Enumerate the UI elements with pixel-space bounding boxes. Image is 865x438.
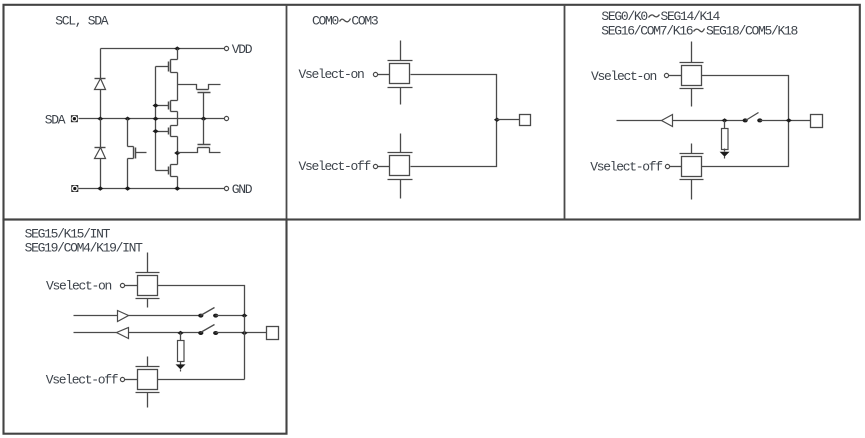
svg-text:GND: GND: [232, 182, 253, 197]
wire S3 to INT pad: [216, 332, 267, 334]
wire key-sense input line: [617, 120, 662, 122]
wire VDD top rail: [101, 48, 225, 50]
transistor SW2 (COM off-switch) gate lead bottom: [400, 180, 402, 199]
wire Vselect-off to switch SW2: [378, 166, 390, 168]
transistor SW2 (COM off-switch) body box: [390, 156, 410, 176]
transistor SW3 (SEG on-switch) gate lead top: [691, 42, 693, 63]
transistor SW2 (COM off-switch) gate lead top: [400, 134, 402, 153]
transistor Q6 right lead: [209, 85, 221, 90]
wire SDA rail to diode D2: [100, 119, 102, 148]
transistor T4 (NMOS) gate bar: [168, 167, 170, 175]
transistor T2 (PMOS) gate lead: [156, 105, 169, 107]
wire resistor bottom lead: [180, 362, 182, 365]
transistor Q6 channel bar: [197, 89, 209, 91]
transistor Q7 channel bar: [198, 147, 210, 149]
node SEG output junction: [786, 118, 792, 122]
terminal Vselect-on circle (COM): [373, 72, 377, 76]
transistor SW5 (INT on-switch) bottom gate bar: [136, 298, 160, 300]
node T4 source / bottom rail: [174, 186, 180, 190]
transistor T2 (PMOS) drain jog: [171, 100, 178, 102]
wire SW5 output: [158, 286, 245, 316]
transistor Q6 gate bar: [198, 92, 211, 94]
transistor SW4 (SEG off-switch) body box: [682, 157, 702, 177]
transistor SW5 (INT on-switch) gate lead bottom: [147, 299, 149, 308]
wire SW3 output: [702, 76, 789, 121]
pad COM output pin: [520, 115, 531, 126]
node feedback gates / SDA rail: [201, 117, 207, 121]
wire output column (INT): [244, 316, 246, 380]
diode D1 (pad to VDD): [95, 78, 106, 80]
transistor T3 (NMOS) gate bar: [168, 128, 170, 135]
transistor T1 (PMOS) gate bar: [168, 62, 170, 72]
wire T1 source to T2 drain: [177, 73, 179, 101]
transistor T4 (NMOS) channel bar: [170, 165, 172, 177]
node NMOS midpoint feedback tap: [174, 151, 180, 155]
node resistor tap (SEG): [722, 118, 728, 122]
transistor Q7 right lead: [210, 148, 221, 153]
wire diode D1 to SDA rail: [100, 90, 102, 119]
wire buffer to switch S1: [673, 120, 746, 122]
buffer U2 (INT output, pointing right): [118, 311, 129, 322]
transistor T3 (NMOS) gate lead: [156, 131, 169, 133]
wire buffer U2 to switch S2: [129, 315, 201, 317]
node line B / output column: [241, 331, 247, 335]
wire Vselect-off to switch SW6: [125, 379, 138, 381]
wire Q7 gate lead from SDA rail: [203, 119, 205, 145]
transistor SW3 (SEG on-switch) gate lead bottom: [691, 89, 693, 107]
transistor SW5 (INT on-switch) body box: [138, 276, 158, 296]
switch S3 lever: [201, 325, 215, 333]
wire SW4 output: [702, 121, 789, 167]
transistor T4 (NMOS) drain jog: [171, 164, 178, 166]
transistor SW3 (SEG on-switch) top gate bar: [680, 62, 704, 64]
transistor SW2 (COM off-switch) bottom gate bar: [388, 179, 413, 181]
svg-text:SEG14/K14: SEG14/K14: [661, 9, 721, 24]
switch S2 lever: [201, 308, 215, 316]
node gate line / T3 gate: [153, 129, 159, 133]
svg-text:Vselect-on: Vselect-on: [299, 67, 365, 82]
wire to COM pad: [497, 119, 520, 121]
node VDD rail / stack junction: [174, 46, 180, 50]
frame bottom-left panel box: [4, 220, 287, 434]
terminal VDD circle: [224, 46, 228, 50]
wire resistor bottom lead: [724, 149, 726, 152]
transistor T4 (NMOS) gate lead: [156, 170, 169, 172]
transistor SW6 (INT off-switch) top gate bar: [136, 366, 160, 368]
transistor T1 (PMOS) channel bar: [170, 60, 172, 73]
transistor Q5 channel bar: [133, 147, 135, 159]
ground arrow (VSS): [720, 152, 730, 157]
switch S2 left contact: [198, 314, 203, 318]
transistor SW4 (SEG off-switch) gate lead bottom: [691, 180, 693, 200]
wire Vselect-on to switch SW3: [669, 75, 682, 77]
transistor SW1 (COM on-switch) gate lead bottom: [400, 88, 402, 105]
node diode column / bottom rail: [97, 186, 103, 190]
pad VSS (bonding pad symbol): [71, 185, 78, 192]
diode D2 (VSS to pad): [95, 147, 106, 149]
switch S1 right contact: [757, 118, 762, 122]
switch S3 left contact: [198, 331, 203, 335]
transistor SW1 (COM on-switch) bottom gate bar: [388, 87, 413, 89]
wire buffer U3 to switch S3: [129, 332, 201, 334]
ground arrow (VSS): [176, 364, 186, 369]
transistor Q5 source jog: [128, 158, 134, 160]
terminal Vselect-off circle (SEG): [665, 164, 669, 168]
svg-text:SCL, SDA: SCL, SDA: [55, 14, 109, 29]
transistor SW6 (INT off-switch) gate lead top: [147, 357, 149, 367]
transistor SW4 (SEG off-switch) top gate bar: [680, 153, 704, 155]
transistor SW4 (SEG off-switch) bottom gate bar: [680, 179, 704, 181]
switch S2 right contact: [213, 314, 218, 318]
node line A / output column: [241, 313, 247, 317]
transistor T3 (NMOS) channel bar: [170, 126, 172, 137]
svg-text:SEG16/COM7/K16: SEG16/COM7/K16: [601, 24, 693, 39]
wire Vselect-off to switch SW4: [670, 166, 682, 168]
transistor SW1 (COM on-switch) top gate bar: [388, 60, 413, 62]
wire resistor top lead: [724, 121, 726, 129]
transistor SW6 (INT off-switch) bottom gate bar: [136, 392, 160, 394]
transistor T1 (PMOS) source jog: [171, 72, 178, 74]
wire S1 to SEG pad: [760, 120, 811, 122]
transistor SW1 (COM on-switch) body box: [390, 64, 410, 84]
svg-text:Vselect-off: Vselect-off: [46, 372, 118, 387]
terminal Vselect-on circle (INT): [120, 283, 124, 287]
transistor SW6 (INT off-switch) body box: [138, 370, 158, 390]
transistor Q7 left lead (to NMOS midpoint): [178, 148, 198, 153]
transistor T2 (PMOS) gate bar: [168, 102, 170, 110]
switch S1 left contact: [743, 118, 748, 122]
svg-text:VDD: VDD: [232, 42, 253, 57]
switch S1 lever: [746, 113, 759, 121]
svg-text:Vselect-off: Vselect-off: [590, 160, 662, 175]
svg-text:SEG19/COM4/K19/INT: SEG19/COM4/K19/INT: [25, 240, 144, 255]
wire SW2 output: [411, 120, 497, 167]
transistor Q7 gate bar: [198, 144, 211, 146]
svg-text:COM3: COM3: [351, 14, 378, 29]
resistor R discharge: [178, 341, 185, 362]
terminal Vselect-off circle (INT): [120, 377, 124, 381]
frame divider between SCL/SDA panel and COM panel: [286, 5, 288, 220]
wire T3 source to T4 drain: [177, 137, 179, 165]
switch S3 right contact: [213, 331, 218, 335]
wire INT line A left: [74, 315, 118, 317]
wire common gate line of T1-T4: [155, 67, 157, 171]
transistor Q5 gate lead: [136, 152, 147, 154]
wire top rail to diode D1: [100, 49, 102, 79]
wire Q5 drain: [127, 119, 129, 147]
wire Vselect-on to switch SW1: [378, 74, 390, 76]
wire Q5 source to bottom rail: [127, 159, 129, 189]
svg-text:Vselect-off: Vselect-off: [299, 159, 371, 174]
pad SEG output pin: [811, 115, 823, 128]
node COM output junction: [494, 118, 500, 122]
svg-text:SEG15/K15/INT: SEG15/K15/INT: [25, 226, 111, 241]
wire GND bottom rail: [79, 188, 225, 190]
wire diode D2 to bottom rail: [100, 159, 102, 189]
transistor T2 (PMOS) source jog: [171, 111, 178, 113]
transistor SW5 (INT on-switch) top gate bar: [136, 272, 160, 274]
frame top-row panel box: [4, 5, 860, 220]
wire SW6 output: [158, 379, 245, 381]
svg-text:SDA: SDA: [45, 112, 66, 127]
wire key-sense line B left: [74, 332, 117, 334]
node Q5 source / bottom rail: [125, 186, 131, 190]
transistor SW3 (SEG on-switch) body box: [682, 66, 702, 86]
terminal Vselect-on circle (SEG): [664, 73, 668, 77]
terminal GND circle: [224, 186, 228, 190]
transistor SW2 (COM off-switch) top gate bar: [388, 152, 413, 154]
transistor Q5 drain jog: [128, 146, 134, 148]
wire S2 to junction: [216, 315, 245, 317]
svg-text:Vselect-on: Vselect-on: [591, 69, 657, 84]
transistor T1 (PMOS) drain jog: [171, 59, 178, 61]
svg-text:COM0: COM0: [312, 14, 339, 29]
resistor R discharge: [722, 129, 729, 150]
svg-text:Vselect-on: Vselect-on: [46, 278, 112, 293]
transistor SW5 (INT on-switch) gate lead top: [147, 253, 149, 273]
transistor SW6 (INT off-switch) gate lead bottom: [147, 393, 149, 408]
node gate line / SDA rail: [153, 117, 159, 121]
transistor T3 (NMOS) drain jog: [171, 125, 178, 127]
transistor Q6 left lead (to PMOS midpoint): [178, 85, 197, 90]
transistor T4 (NMOS) source jog: [171, 176, 178, 178]
transistor SW4 (SEG off-switch) gate lead top: [691, 144, 693, 154]
transistor T2 (PMOS) channel bar: [170, 101, 172, 112]
transistor T1 (PMOS) gate lead: [156, 66, 169, 68]
transistor T3 (NMOS) source jog: [171, 136, 178, 138]
wire T2 source to T3 drain (crosses SDA rail): [177, 112, 179, 126]
wire resistor top lead: [180, 333, 182, 341]
buffer U1 (key input, pointing left): [662, 115, 673, 127]
terminal Vselect-off circle (COM): [373, 164, 377, 168]
pad INT output pin: [267, 327, 279, 340]
terminal internal SDA output circle: [224, 116, 228, 120]
transistor SW3 (SEG on-switch) bottom gate bar: [680, 88, 704, 90]
wire Vselect-on to switch SW5: [125, 285, 138, 287]
svg-text:SEG0/K0: SEG0/K0: [601, 9, 647, 24]
svg-text:SEG18/COM5/K18: SEG18/COM5/K18: [706, 24, 798, 39]
wire VDD rail down to T1: [177, 49, 179, 60]
transistor Q5 gate bar: [135, 148, 137, 159]
wire SDA mid rail: [79, 118, 225, 120]
frame divider between COM panel and SEG panel: [564, 5, 566, 220]
node SDA rail / Q5 drain: [125, 117, 131, 121]
node resistor tap (INT): [177, 331, 183, 335]
wire Q6 gate lead to SDA rail: [203, 93, 205, 119]
pad SDA (bonding pad symbol): [71, 115, 78, 122]
buffer U3 (key input, pointing left): [117, 328, 129, 339]
node diode column / SDA rail: [97, 117, 103, 121]
wire T4 source to bottom rail: [177, 177, 179, 189]
wire SW1 output: [411, 75, 497, 120]
transistor SW1 (COM on-switch) gate lead top: [400, 41, 402, 61]
node gate line / T2 gate: [153, 103, 159, 107]
